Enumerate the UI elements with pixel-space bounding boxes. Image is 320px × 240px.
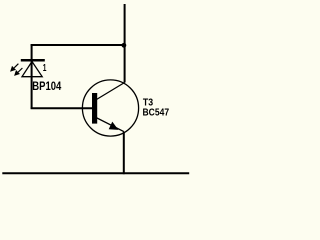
wire: base horizontal: [31, 107, 93, 109]
svg-text:BP104: BP104: [32, 79, 61, 93]
wire: emitter vertical: [123, 132, 125, 175]
transistor T3 emitter diagonal: [94, 117, 124, 132]
light arrow 1: [10, 64, 18, 72]
wire: top horizontal: [31, 44, 126, 46]
wire: left vertical through diode: [31, 44, 33, 109]
photodiode D1 triangle: [22, 62, 42, 77]
svg-text:BC547: BC547: [143, 108, 170, 119]
node junction dot: [122, 43, 127, 48]
svg-text:1: 1: [43, 63, 47, 74]
wire: bottom rail: [2, 172, 189, 174]
transistor T3 emitter arrow: [109, 122, 119, 130]
light arrow 2: [14, 68, 22, 76]
wire: top collector vertical: [124, 4, 126, 83]
photodiode D1 cathode bar: [21, 59, 45, 62]
transistor T3 circle: [82, 80, 138, 136]
transistor T3 collector diagonal: [94, 83, 125, 102]
transistor T3 base bar: [92, 93, 97, 124]
